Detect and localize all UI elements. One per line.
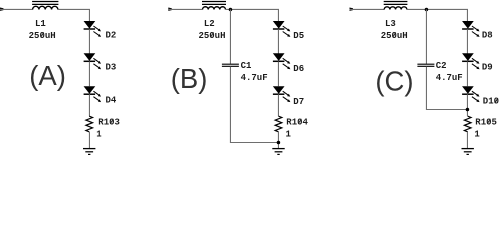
wire L2 to node (corner to D5) — [226, 9, 279, 21]
inductor L3 coil — [384, 7, 407, 10]
wire D8 to D9 — [466, 29, 468, 53]
ground A — [83, 148, 95, 150]
svg-text:D7: D7 — [293, 97, 304, 107]
wire D4 to R103 — [88, 94, 90, 116]
svg-text:D8: D8 — [482, 31, 493, 41]
LED D5 — [273, 21, 291, 37]
wire D10 to R105 — [466, 94, 468, 116]
wire D6 to D7 — [277, 62, 279, 87]
wire C2 to node above R105 — [426, 67, 467, 110]
resistor R105 — [464, 116, 471, 132]
junction node C2/R105 — [466, 108, 470, 112]
wire input to L3 — [350, 8, 385, 10]
svg-text:1: 1 — [286, 130, 292, 140]
svg-text:C1: C1 — [241, 61, 252, 71]
svg-text:L2: L2 — [204, 19, 215, 29]
wire D3 to D4 — [88, 62, 90, 87]
svg-text:(B): (B) — [171, 63, 208, 94]
svg-text:D5: D5 — [293, 31, 304, 41]
off-page connector input C — [350, 8, 354, 11]
svg-text:1: 1 — [96, 130, 102, 140]
LED D10 — [462, 86, 480, 102]
svg-text:D4: D4 — [106, 96, 117, 106]
inductor L1 coil — [33, 6, 58, 9]
ground C — [462, 148, 474, 150]
resistor R104 — [275, 116, 282, 132]
LED D2 — [84, 21, 102, 37]
capacitor C2 — [417, 63, 434, 65]
wire L3 to node (corner to D8) — [407, 9, 468, 21]
off-page connector input A — [0, 8, 4, 11]
svg-text:D10: D10 — [483, 97, 499, 107]
svg-text:250uH: 250uH — [198, 31, 225, 41]
LED D3 — [84, 53, 102, 69]
inductor L3 core — [384, 1, 408, 3]
wire D5 to D6 — [277, 29, 279, 53]
svg-text:R105: R105 — [475, 117, 497, 127]
svg-text:250uH: 250uH — [381, 31, 408, 41]
LED D9 — [462, 53, 480, 69]
wire R103 to ground — [88, 132, 90, 149]
svg-text:D2: D2 — [106, 31, 117, 41]
resistor R103 — [86, 116, 93, 132]
svg-text:4.7uF: 4.7uF — [241, 73, 268, 83]
svg-text:(C): (C) — [375, 65, 413, 96]
LED D6 — [273, 53, 291, 69]
wire D2 to D3 — [88, 29, 90, 53]
wire C1 to ground node — [230, 67, 278, 143]
wire L1 to D2 (corner) — [58, 9, 90, 21]
capacitor C1 — [222, 63, 239, 65]
LED D4 — [84, 86, 102, 102]
wire input to L2 — [168, 8, 202, 10]
LED D8 — [462, 21, 480, 37]
svg-text:C2: C2 — [436, 61, 447, 71]
wire D9 to D10 — [466, 62, 468, 87]
wire input to L1 — [0, 8, 33, 10]
wire R104 to ground — [277, 132, 279, 149]
inductor L2 coil — [203, 7, 226, 10]
wire node to C2 — [425, 9, 427, 63]
ground B — [272, 148, 284, 150]
svg-text:(A): (A) — [29, 60, 66, 91]
svg-text:4.7uF: 4.7uF — [436, 73, 463, 83]
wire node to C1 — [229, 9, 231, 63]
junction node L2/C1 — [229, 8, 233, 12]
svg-text:R104: R104 — [286, 117, 308, 127]
wire R105 to ground — [466, 132, 468, 149]
svg-text:1: 1 — [474, 130, 480, 140]
svg-text:D9: D9 — [482, 63, 493, 73]
svg-text:R103: R103 — [98, 117, 120, 127]
svg-text:D3: D3 — [106, 63, 117, 73]
svg-text:L3: L3 — [385, 19, 396, 29]
svg-text:D6: D6 — [293, 64, 304, 74]
inductor L2 core — [202, 1, 226, 3]
off-page connector input B — [168, 8, 172, 11]
LED D7 — [273, 86, 291, 102]
inductor L1 core — [32, 1, 58, 3]
svg-text:L1: L1 — [35, 19, 46, 29]
svg-text:250uH: 250uH — [29, 31, 56, 41]
wire D7 to R104 — [277, 94, 279, 116]
junction node L3/C2 — [425, 8, 429, 12]
junction node R104/C1/ground — [277, 141, 281, 145]
